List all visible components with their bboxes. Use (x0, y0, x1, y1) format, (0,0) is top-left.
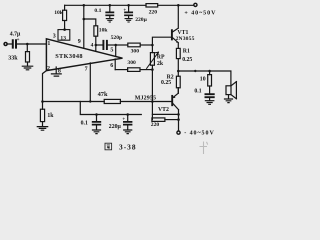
wire VT1 base jog (152, 37, 171, 45)
resistor 300 upper (128, 43, 140, 47)
node (95, 113, 98, 116)
svg-text:9: 9 (78, 39, 81, 45)
svg-text:220μ: 220μ (135, 17, 147, 23)
node pin5 (114, 44, 117, 47)
node (208, 70, 211, 73)
wire (7, 43, 12, 45)
svg-text:220μ: 220μ (109, 124, 122, 130)
svg-text:0.25: 0.25 (161, 80, 171, 86)
resistor 33k (26, 52, 30, 62)
node output (177, 70, 180, 73)
node (194, 70, 196, 72)
wire (177, 88, 179, 93)
svg-text:4: 4 (91, 42, 94, 48)
node (177, 4, 180, 7)
wire (140, 44, 152, 46)
svg-text:220: 220 (151, 122, 160, 128)
terminal -40V (177, 131, 180, 134)
wire (116, 44, 128, 46)
svg-text:1: 1 (47, 41, 50, 47)
svg-text:4.7μ: 4.7μ (10, 32, 21, 38)
transistor Q1 VT1 2N3055 (171, 30, 173, 39)
node (83, 4, 86, 7)
ground (22, 66, 32, 70)
pin8 stub (55, 67, 57, 74)
ground (125, 19, 132, 22)
wire pin9 branch (83, 5, 85, 48)
wire (27, 62, 29, 66)
svg-text:8: 8 (58, 69, 61, 75)
resistor 47k (104, 99, 120, 103)
node (109, 4, 112, 7)
ground (124, 130, 132, 134)
resistor 10 zobel (209, 71, 211, 75)
svg-text:+: + (122, 117, 125, 122)
wire bias line (151, 102, 153, 120)
node (177, 113, 180, 116)
wire output (178, 71, 231, 86)
svg-text:0.1: 0.1 (94, 8, 101, 14)
svg-text:47k: 47k (98, 91, 108, 98)
op-amp U1 STK3048 (46, 39, 122, 71)
svg-text:VT2: VT2 (158, 107, 169, 113)
resistor 1k (42, 102, 44, 110)
node (89, 100, 91, 102)
svg-text:STK3048: STK3048 (55, 53, 83, 60)
ground speaker (225, 99, 233, 103)
node (127, 4, 130, 7)
svg-text:MJ2955: MJ2955 (135, 95, 156, 101)
node input junction (26, 43, 29, 46)
svg-text:6: 6 (110, 63, 113, 69)
svg-text:10k: 10k (54, 10, 64, 16)
input terminal (4, 43, 7, 46)
svg-text:+ 40~50V: + 40~50V (184, 10, 216, 16)
wire pin5 stub (115, 45, 117, 56)
potentiometer RP (151, 45, 153, 53)
wire pin4 stub (95, 45, 97, 51)
ground pin8 (51, 74, 61, 76)
wire (115, 69, 127, 71)
speaker (226, 86, 231, 95)
wire feedback 47k line (43, 101, 172, 103)
svg-text:10k: 10k (99, 27, 109, 33)
resistor 10k (63, 10, 67, 20)
terminal +40V (194, 3, 197, 6)
svg-text:1k: 1k (47, 113, 54, 119)
svg-text:3-38: 3-38 (119, 143, 137, 152)
node (41, 100, 44, 103)
node (151, 68, 154, 71)
resistor 220 top (146, 4, 158, 7)
svg-text:R1: R1 (183, 49, 190, 55)
node box top (63, 28, 66, 31)
svg-text:220: 220 (149, 9, 158, 15)
wire (108, 44, 116, 46)
resistor 10k pin4 (94, 26, 98, 36)
wire (64, 5, 66, 10)
pin 3-13 box (58, 30, 70, 41)
svg-text:0.1: 0.1 (81, 121, 88, 127)
resistor R2 (177, 71, 179, 76)
wire (18, 43, 47, 45)
capacitor 0.1 zobel (209, 86, 211, 94)
capacitor 220u top (128, 5, 130, 12)
transistor Q2 VT2 MJ2955 (171, 96, 173, 105)
svg-text:2N3055: 2N3055 (176, 36, 195, 42)
node (151, 44, 154, 47)
svg-text:300: 300 (127, 60, 136, 66)
wire pin6 stub (114, 59, 116, 70)
ground (106, 19, 113, 22)
resistor 220 bottom (152, 118, 165, 122)
svg-text:300: 300 (131, 49, 140, 55)
wire (140, 69, 152, 71)
wire lower filter line (80, 102, 141, 115)
svg-text:2k: 2k (157, 61, 164, 67)
wire (95, 36, 97, 45)
svg-text:10: 10 (200, 76, 206, 82)
svg-text:0.1: 0.1 (194, 89, 201, 95)
svg-text:3: 3 (53, 34, 56, 40)
svg-text:+: + (123, 8, 126, 13)
node pin4 (95, 44, 98, 47)
ground (37, 127, 47, 131)
capacitor 0.1 top (109, 5, 111, 12)
svg-text:33k: 33k (8, 55, 18, 61)
svg-text:- 40~50V: - 40~50V (184, 131, 215, 137)
wire pin2 (43, 71, 47, 102)
wire pin7 stub (89, 63, 91, 102)
wire (26, 44, 28, 52)
wire (177, 59, 179, 71)
node (151, 100, 154, 103)
resistor 300 lower (128, 68, 140, 72)
faint pencil mark (200, 142, 208, 155)
svg-text:RP: RP (157, 55, 165, 61)
node (177, 118, 180, 121)
svg-text:7: 7 (85, 66, 88, 72)
wire (64, 21, 66, 30)
svg-text:13: 13 (60, 35, 66, 41)
capacitor 520p (103, 41, 107, 49)
caption 图 glyph drawn (105, 143, 112, 150)
wire top rail (65, 4, 194, 6)
ground (205, 101, 213, 105)
node (126, 113, 129, 116)
wire (96, 44, 103, 46)
capacitor 4.7u (13, 40, 16, 47)
svg-text:520p: 520p (111, 35, 123, 41)
svg-text:2: 2 (47, 66, 50, 72)
svg-text:+: + (17, 38, 20, 43)
ground (93, 130, 101, 134)
capacitor 0.1 bottom (96, 115, 98, 122)
svg-text:5: 5 (110, 48, 113, 54)
svg-text:0.25: 0.25 (182, 57, 192, 63)
node (83, 18, 86, 21)
wire (84, 19, 96, 26)
resistor R1 (176, 48, 180, 58)
capacitor 220u bottom (127, 115, 129, 122)
